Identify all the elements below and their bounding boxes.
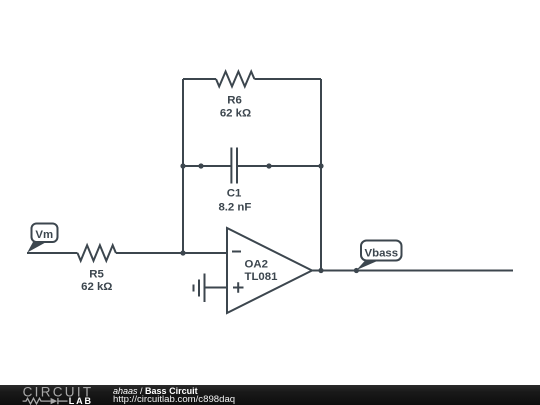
svg-text:62 kΩ: 62 kΩ: [81, 281, 112, 293]
svg-text:62 kΩ: 62 kΩ: [220, 108, 251, 120]
svg-text:C1: C1: [227, 188, 242, 200]
svg-text:LAB: LAB: [69, 396, 93, 405]
svg-text:OA2: OA2: [245, 259, 268, 271]
svg-text:R6: R6: [227, 95, 242, 107]
svg-text:TL081: TL081: [245, 271, 279, 283]
svg-text:8.2 nF: 8.2 nF: [218, 202, 251, 214]
svg-text:Vbass: Vbass: [365, 247, 399, 259]
svg-text:Vm: Vm: [35, 229, 53, 241]
svg-text:R5: R5: [89, 268, 104, 280]
